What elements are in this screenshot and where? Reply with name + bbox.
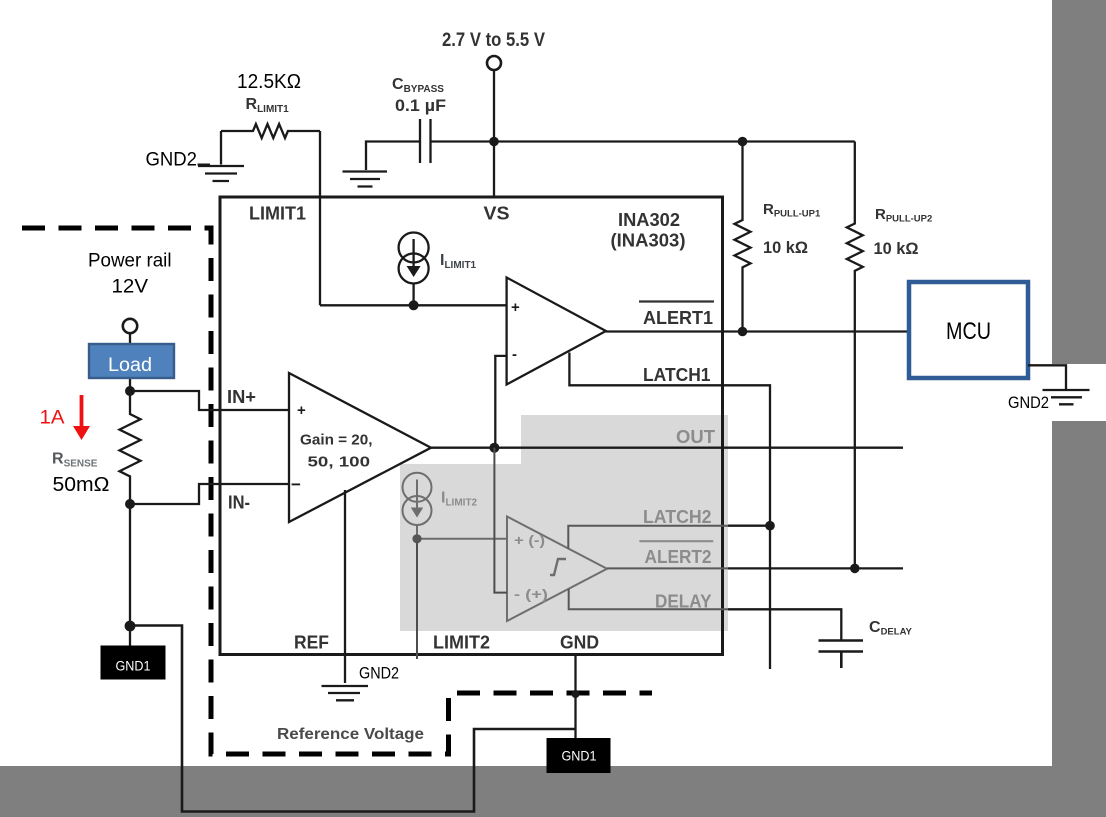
- svg-text:(INA303): (INA303): [611, 231, 686, 251]
- svg-text:0.1 µF: 0.1 µF: [395, 96, 446, 115]
- wire ilimit1 stem: [412, 284, 414, 306]
- op-amp signs main amp: [291, 402, 306, 494]
- overline ALERT1: [639, 300, 714, 302]
- wire LIMIT1 net to comparator: [320, 304, 507, 306]
- svg-text:−: −: [291, 475, 301, 494]
- svg-text:10 kΩ: 10 kΩ: [874, 239, 919, 258]
- svg-text:Load: Load: [108, 355, 152, 376]
- resistor RLIMIT1: [221, 124, 320, 138]
- svg-text:ALERT1: ALERT1: [643, 308, 713, 328]
- wire LATCH2 outside: [728, 525, 770, 527]
- svg-text:GND2: GND2: [359, 665, 399, 683]
- svg-text:ALERT2: ALERT2: [645, 547, 712, 567]
- svg-text:IN+: IN+: [227, 387, 256, 407]
- svg-text:LIMIT1: LIMIT1: [249, 204, 306, 224]
- ground GND2 bypass: [343, 172, 388, 187]
- wire GND pin to GND1: [574, 655, 576, 739]
- node pullup1 top: [738, 137, 748, 147]
- ground GND2 mcu: [1043, 390, 1090, 404]
- wire sense to GND1: [129, 504, 131, 646]
- wire cap right: [431, 140, 495, 142]
- terminal power rail: [123, 319, 137, 333]
- IC box INA302: [220, 197, 723, 655]
- op-amp signs comparator1: [511, 299, 520, 363]
- svg-text:1A: 1A: [40, 408, 65, 429]
- svg-text:2.7 V to 5.5 V: 2.7 V to 5.5 V: [442, 30, 545, 51]
- overline ALERT2: [639, 540, 713, 542]
- node ILIMIT1: [409, 300, 419, 310]
- wire LIMIT1 drop: [319, 131, 321, 305]
- wire LATCH2 inside: [568, 526, 728, 549]
- wire IN+: [130, 391, 289, 410]
- wire IN-: [130, 484, 289, 504]
- node load top: [125, 386, 135, 396]
- svg-text:- (+): - (+): [514, 586, 548, 602]
- svg-text:-: -: [512, 346, 517, 363]
- GND1 box right: [547, 738, 611, 773]
- svg-text:GND1: GND1: [116, 659, 151, 674]
- wire minus input from OUT: [494, 448, 507, 593]
- wire comparator1 minus input: [495, 356, 506, 448]
- ground GND2 ref: [322, 686, 369, 700]
- node OUT feedback: [489, 443, 499, 453]
- resistor RPULLUP2: [847, 142, 863, 569]
- svg-text:Power rail: Power rail: [88, 251, 172, 272]
- wire DELAY inside: [569, 589, 728, 609]
- gray labels INA303 region: [441, 427, 715, 612]
- svg-text:REF: REF: [294, 633, 329, 653]
- svg-text:LATCH2: LATCH2: [643, 507, 712, 527]
- svg-text:GND2: GND2: [146, 150, 198, 171]
- GND1 box left: [101, 646, 166, 680]
- wire VS vertical: [493, 70, 495, 197]
- svg-text:10 kΩ: 10 kΩ: [763, 238, 808, 257]
- svg-text:DELAY: DELAY: [655, 592, 712, 612]
- arrowhead ILIMIT1: [407, 266, 421, 277]
- capacitor CDELAY: [819, 641, 864, 669]
- dashed border power rail / reference voltage: [22, 228, 652, 754]
- node gnd1 left: [125, 621, 136, 632]
- node VS rail: [489, 137, 499, 147]
- svg-text:INA302: INA302: [618, 210, 680, 230]
- svg-text:50, 100: 50, 100: [308, 454, 371, 471]
- ground GND2 rlimit: [198, 131, 244, 181]
- hysteresis glyph: [550, 559, 566, 575]
- gray sidebar top: [1052, 0, 1106, 364]
- current source ILIMIT2: [403, 473, 432, 502]
- gray INA303 elements: [403, 448, 729, 659]
- node ALERT1: [738, 327, 748, 337]
- svg-text:LATCH1: LATCH1: [643, 365, 711, 385]
- wire cap left to rail: [366, 142, 420, 171]
- wire ALERT1: [606, 330, 909, 332]
- svg-text:GND1: GND1: [562, 749, 597, 764]
- svg-text:GND2: GND2: [1008, 394, 1049, 412]
- svg-text:IN-: IN-: [228, 493, 250, 513]
- svg-text:+: +: [511, 299, 520, 316]
- wire top rail: [494, 140, 855, 142]
- wire MCU to gnd2: [1028, 365, 1066, 389]
- current source ILIMIT1: [399, 233, 429, 263]
- svg-text:Gain = 20,: Gain = 20,: [300, 432, 373, 449]
- arrowhead ILIMIT2: [411, 508, 423, 518]
- svg-text:VS: VS: [484, 204, 510, 224]
- wire REF drop: [344, 490, 346, 683]
- shaded INA303 region: [400, 415, 728, 631]
- MCU box: [909, 282, 1028, 378]
- op-amp U2 main amplifier: [289, 373, 431, 522]
- wire ALERT2 inside: [607, 567, 728, 569]
- wire LATCH1: [569, 353, 770, 670]
- svg-text:12.5KΩ: 12.5KΩ: [237, 71, 301, 93]
- svg-text:12V: 12V: [112, 277, 149, 298]
- comparator U3 hysteresis: [507, 517, 607, 622]
- resistor RSENSE: [120, 391, 141, 504]
- wire limit2 input: [417, 538, 507, 540]
- node ALERT2: [850, 564, 860, 574]
- node gnd pin dash crossing: [572, 690, 580, 698]
- svg-text:50mΩ: 50mΩ: [53, 474, 110, 496]
- svg-text:Reference Voltage: Reference Voltage: [277, 726, 424, 743]
- wire long return path: [130, 626, 576, 812]
- powerpoint style labels: [40, 71, 1050, 683]
- resistor RPULLUP1: [735, 142, 751, 332]
- supply terminal 2.7V-5.5V: [487, 56, 501, 70]
- svg-text:LIMIT2: LIMIT2: [433, 633, 490, 653]
- underscore after GND2: [198, 164, 211, 166]
- svg-text:+: +: [297, 402, 306, 419]
- capacitor CBYPASS: [420, 119, 431, 163]
- node LATCH2: [765, 521, 775, 531]
- node sense bottom: [125, 499, 135, 509]
- wire ALERT2 outside: [728, 567, 903, 569]
- wire load terminal stem: [129, 333, 131, 391]
- svg-text:MCU: MCU: [946, 318, 991, 345]
- wire ilimit2 stem: [416, 525, 418, 539]
- red arrow 1A: [80, 395, 84, 428]
- gray bottom bar: [0, 766, 1106, 817]
- schematic bold labels: [52, 30, 932, 743]
- node ILIMIT2: [412, 534, 421, 543]
- wire OUT: [431, 447, 903, 449]
- Load box: [89, 344, 174, 378]
- gray sidebar bottom: [1052, 421, 1106, 771]
- svg-text:OUT: OUT: [676, 427, 715, 447]
- op-amp U1 comparator1: [507, 278, 606, 385]
- wire DELAY outside to CDELAY: [728, 609, 841, 640]
- wire LIMIT2 drop: [416, 539, 418, 659]
- svg-text:+ (-): + (-): [514, 532, 545, 548]
- svg-text:GND: GND: [560, 633, 599, 653]
